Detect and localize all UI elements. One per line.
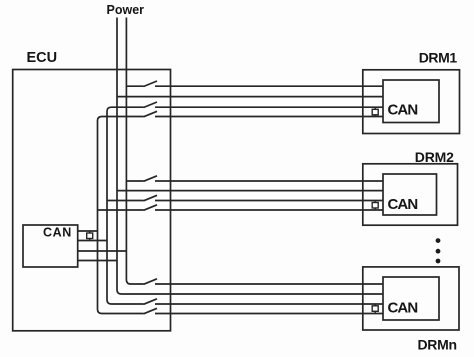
wire: ECU CAN pin 3 to power wire 2 [78, 250, 127, 252]
wire: switch S2a to DRM2 power pin [155, 180, 383, 182]
svg-text:CAN: CAN [388, 300, 418, 317]
DRM1 CAN node box [383, 80, 439, 123]
DRM2 outer box [363, 164, 458, 225]
wire: ECU CAN pin 4 to power wire 1 [78, 260, 117, 262]
svg-text:DRM1: DRM1 [419, 49, 458, 65]
wire: switch S3b to DRMn CAN-H pin [155, 303, 383, 305]
ECU CAN controller box U1 [23, 225, 78, 267]
wire: ECU CAN pin 2 to CAN bus 2 [78, 240, 107, 242]
svg-text:CAN: CAN [388, 102, 418, 119]
DRM2 CAN node box [383, 174, 437, 215]
switch S1c (DRM1 CAN-L) [144, 111, 158, 117]
switch S3c (DRMn CAN-L) [144, 308, 158, 314]
termination resistor RTn (DRMn) [372, 304, 378, 314]
svg-text:DRM2: DRM2 [415, 149, 454, 165]
wire: switch S1c to DRM1 CAN-L pin [155, 116, 383, 118]
wire B2: unswitched power1 to DRM2 [117, 190, 383, 192]
svg-text:CAN: CAN [388, 196, 418, 213]
switch S2c (DRM2 CAN-L) [144, 205, 158, 211]
switch S1a (DRM1 switched power) [144, 81, 158, 87]
wire: switch S1b to DRM1 CAN-H pin [155, 106, 383, 108]
wire: stub power2 to switch S1a [126, 85, 143, 87]
svg-text:DRMn: DRMn [418, 337, 457, 353]
power wire 2 (right supply line, elbow to switch S3a stub) [126, 18, 143, 285]
switch S3a (DRMn switched power) [144, 279, 158, 285]
ECU box [13, 70, 171, 331]
termination resistor RT0 (ECU side) [87, 231, 93, 241]
svg-text:ECU: ECU [27, 50, 58, 66]
svg-text:Power: Power [107, 3, 145, 17]
wire: switch S2b to DRM2 CAN-H pin [155, 200, 383, 202]
wire: switch S3c to DRMn CAN-L pin [155, 313, 383, 315]
switch S2b (DRM2 CAN-H) [144, 195, 158, 201]
wire: switch S2c to DRM2 CAN-L pin [155, 209, 383, 211]
termination resistor RT2 (DRM2) [372, 201, 378, 211]
wire: stub power2 to switch S2a [126, 180, 143, 182]
termination resistor RT1 (DRM1) [372, 107, 378, 116]
wire: stub CAN bus 1 to switch S2c [98, 209, 144, 211]
power wire 1 (left supply line, elbow into DRMn unswitched feed) [117, 18, 383, 295]
wire: switch S1a to DRM1 power pin [155, 85, 383, 87]
DRMn CAN node box [383, 277, 439, 320]
ellipsis dots (more DRMs) [436, 238, 441, 263]
wire: stub CAN bus 2 to switch S2b [107, 200, 144, 202]
switch S2a (DRM2 switched power) [144, 176, 158, 182]
CAN bus line 2 (CAN-H bus: wire C1 stub, vertical bus, wire C3 stub) [107, 107, 144, 304]
DRMn outer box [363, 267, 459, 330]
switch S1b (DRM1 CAN-H) [144, 102, 158, 108]
wire: ECU CAN pin 1 to CAN bus 1 [78, 230, 98, 232]
DRM1 outer box [363, 70, 460, 134]
wire: switch S3a to DRMn power pin [155, 283, 383, 285]
CAN bus line 1 (CAN-L bus: wire D1 stub, vertical bus, wire D3 stub) [98, 117, 144, 314]
svg-text:CAN: CAN [43, 226, 72, 240]
switch S3b (DRMn CAN-H) [144, 299, 158, 305]
wire B1: unswitched power1 to DRM1 [117, 96, 383, 98]
